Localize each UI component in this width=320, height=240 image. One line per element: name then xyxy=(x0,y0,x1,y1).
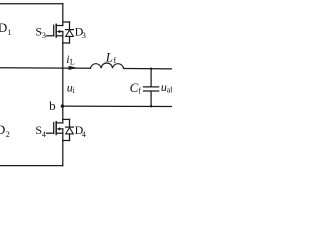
wire S3 drain riser xyxy=(62,4,64,26)
wire jog top of S3/D3 pair xyxy=(63,21,70,23)
capacitor Cf xyxy=(144,69,159,107)
node b junction dot xyxy=(61,104,65,108)
wire mid rail (node a to filter) left part xyxy=(0,67,91,70)
node: Cf bottom junction dot xyxy=(150,105,152,107)
svg-text:1: 1 xyxy=(8,28,12,37)
wire S4 source riser xyxy=(62,141,64,166)
svg-text:f: f xyxy=(138,86,141,95)
svg-text:2: 2 xyxy=(6,130,10,139)
wire output bottom rail (node b rail) xyxy=(62,105,172,107)
transistor S3 (power MOSFET) xyxy=(47,24,63,43)
svg-text:ab: ab xyxy=(167,86,172,95)
wire jog bottom of S3/D3 pair xyxy=(63,42,70,44)
wire bottom DC rail xyxy=(0,165,63,167)
wire jog bottom of S4/D4 pair xyxy=(63,140,70,142)
wire bridge-leg midpoint vertical (S3 source to S4 drain) xyxy=(62,43,64,119)
diode D3 xyxy=(66,22,74,43)
svg-text:b: b xyxy=(49,98,56,113)
wire mid rail right part (Lf to output) xyxy=(124,68,173,70)
svg-text:3: 3 xyxy=(42,31,46,40)
svg-text:D: D xyxy=(0,122,5,137)
transistor S4 (power MOSFET) xyxy=(47,119,63,140)
svg-text:L: L xyxy=(105,49,113,64)
svg-text:3: 3 xyxy=(82,31,86,40)
svg-text:4: 4 xyxy=(82,130,86,139)
wire top DC rail xyxy=(0,3,63,5)
wire jog top of S4/D4 pair xyxy=(63,118,70,120)
svg-text:L: L xyxy=(70,58,75,67)
svg-text:D: D xyxy=(0,20,7,35)
svg-text:4: 4 xyxy=(42,130,46,139)
diode D4 xyxy=(66,119,74,140)
node: Cf top junction dot xyxy=(150,68,152,70)
svg-text:f: f xyxy=(114,56,117,65)
current arrow iL on mid rail xyxy=(69,66,78,70)
inductor Lf coil xyxy=(91,63,124,68)
